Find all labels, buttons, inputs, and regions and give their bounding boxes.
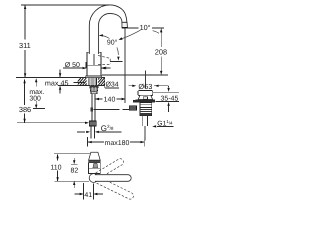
pop-up rod connector	[129, 106, 136, 111]
dimension 82	[71, 158, 79, 188]
aerator at spout end	[122, 22, 128, 27]
waste throat below deck	[140, 103, 152, 108]
dimension max180	[87, 137, 144, 147]
lever direction thick arrow	[101, 67, 106, 70]
washer	[91, 92, 97, 94]
dimension 41	[75, 183, 104, 200]
supply pipe	[92, 94, 95, 121]
waste axis line	[144, 126, 146, 141]
svg-text:Ø 50: Ø 50	[65, 61, 80, 69]
bottom reference line (386)	[17, 122, 85, 124]
dimension 386	[19, 79, 31, 123]
G3/8 connector nut	[89, 121, 96, 126]
label G 3/8 with pinch arrows	[77, 124, 121, 133]
label G1 1/4	[152, 119, 173, 127]
pipe below connector	[91, 126, 95, 139]
svg-text:300: 300	[29, 95, 41, 102]
svg-text:max180: max180	[105, 140, 130, 147]
mounting nut below deck	[90, 86, 99, 87]
90deg annotation arc	[100, 35, 119, 55]
deck (counter) section lines	[16, 78, 105, 89]
svg-text:311: 311	[19, 41, 31, 50]
pop-up waste plug cap	[138, 91, 153, 96]
label O34 with underline leader	[105, 81, 119, 89]
pop-up waste operating rod	[91, 107, 94, 111]
plan view: dashed lever positions	[96, 158, 135, 201]
dimension 311	[19, 5, 31, 77]
dimension 110	[50, 154, 90, 182]
deck hatch right	[98, 78, 105, 85]
svg-text:208: 208	[155, 48, 167, 57]
svg-text:Ø34: Ø34	[105, 81, 118, 89]
svg-text:Ø63: Ø63	[138, 82, 152, 91]
top reference line	[21, 4, 110, 6]
svg-text:82: 82	[71, 168, 79, 175]
svg-text:41: 41	[84, 192, 92, 199]
plug stem	[143, 97, 147, 100]
lever reference line	[110, 60, 123, 62]
dimension 35-45	[153, 86, 179, 112]
plan view: spout column	[89, 152, 101, 173]
threaded section	[140, 107, 152, 115]
body base plinth	[86, 76, 102, 78]
208 bottom reference line	[102, 74, 168, 76]
waste tailpipe	[142, 116, 147, 126]
10deg angle arc with arrow	[121, 30, 141, 39]
faucet threaded shank through deck	[89, 78, 97, 86]
svg-text:110: 110	[50, 165, 61, 172]
svg-text:140: 140	[104, 97, 116, 104]
waste flange (dark) on deck	[135, 100, 155, 103]
deck hatch at drain left	[133, 100, 135, 103]
dimension max45	[45, 70, 85, 94]
dimension max.300	[29, 78, 45, 108]
faucet body	[87, 52, 101, 77]
spout axis vertical line	[124, 28, 126, 103]
plug lower cone	[138, 96, 152, 100]
dimension O63	[128, 82, 168, 91]
svg-text:10°: 10°	[140, 23, 151, 32]
dimension 140	[95, 97, 126, 104]
drain centerline	[144, 71, 146, 89]
spout tube (riser + arc, tapered)	[89, 5, 127, 54]
lever dashes (handle positions)	[98, 56, 110, 65]
10deg label line	[128, 27, 164, 29]
deck hatch left	[78, 78, 87, 86]
bottom reference line (plan view)	[55, 180, 90, 182]
plan view: pivot ball	[89, 174, 98, 183]
dimension O50	[63, 61, 107, 69]
svg-text:90°: 90°	[107, 40, 118, 47]
svg-text:386: 386	[19, 105, 31, 114]
svg-text:max 45: max 45	[45, 78, 69, 87]
plan view: solid lever	[95, 175, 131, 182]
dimension 208	[155, 28, 167, 75]
svg-text:35-45: 35-45	[160, 96, 178, 103]
